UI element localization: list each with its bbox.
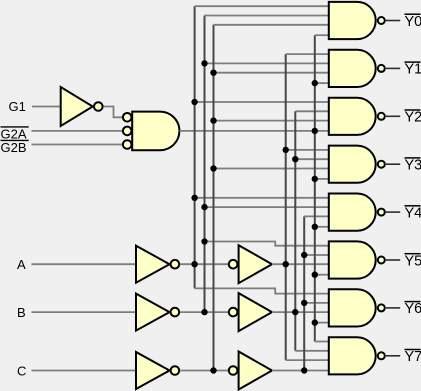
- wire Y3 output: [386, 163, 400, 165]
- wire B bus vertical: [294, 111, 296, 350]
- junction B-bar source: [201, 309, 207, 315]
- junction E/Y3: [312, 176, 318, 182]
- wire A-bar bus vertical: [194, 6, 196, 288]
- output label Y0 (active low): [405, 14, 421, 30]
- wire A bus vertical: [285, 54, 287, 360]
- NAND gate Y0: [329, 2, 385, 39]
- inverter first stage (C): [136, 352, 179, 389]
- wire C to Y5 input 2: [304, 254, 329, 256]
- wire B to Y7 input 2: [295, 350, 329, 352]
- svg-text:Y5: Y5: [405, 253, 421, 269]
- wire C-bar to Y0 input 3: [214, 24, 329, 26]
- wire E to Y6 input 4: [315, 322, 329, 324]
- enable AND gate U2 (3-input, bubbled inputs): [123, 112, 180, 151]
- wire C bus vertical: [303, 216, 305, 370]
- junction C/Y6: [301, 300, 307, 306]
- input label G2B (active low): [1, 140, 29, 155]
- NAND gate Y2: [329, 98, 385, 135]
- wire A to Y3 input 1: [286, 149, 329, 151]
- output label Y7 (active low): [405, 349, 421, 365]
- wire B-bar line: [180, 311, 229, 313]
- junction C-bar/Y3: [210, 165, 216, 171]
- wire A-bar line: [180, 263, 229, 265]
- output label Y1 (active low): [405, 62, 421, 78]
- wire A line to Y5 input 3: [272, 263, 329, 265]
- wire E to Y0 input 4: [315, 34, 329, 36]
- output label Y4 (active low): [405, 205, 421, 221]
- wire Y4 output: [386, 211, 400, 213]
- junction B-bar/Y1: [201, 60, 207, 66]
- svg-text:Y2: Y2: [405, 110, 421, 126]
- wire A-bar to Y2 input 1: [195, 101, 329, 103]
- NAND gate Y1: [329, 50, 385, 87]
- junction B-bar/Y4: [201, 204, 207, 210]
- junction E/Y5: [312, 272, 318, 278]
- wire E enable line to Y2 input 4: [179, 130, 328, 132]
- wire Y0 output: [386, 20, 400, 22]
- wire C-bar to Y1 input 3: [214, 72, 329, 74]
- wire A to Y7 input 3: [286, 359, 329, 361]
- svg-text:Y4: Y4: [405, 205, 421, 221]
- wire B to Y3 input 2: [295, 158, 329, 160]
- buffer second stage (C): [229, 352, 272, 390]
- junction E line: [312, 128, 318, 134]
- wire B to Y2 input 2: [295, 110, 329, 112]
- NAND gate Y7: [329, 337, 385, 374]
- junction A-bar/Y4: [191, 195, 197, 201]
- wire A-bar to Y6 input 1 (jog): [195, 288, 329, 293]
- svg-text:Y7: Y7: [405, 349, 421, 365]
- junction C source: [301, 367, 307, 373]
- buffer second stage (A): [229, 245, 272, 283]
- wire G2B input: [32, 144, 123, 146]
- output label Y3 (active low): [405, 158, 421, 174]
- NAND gate Y6: [329, 289, 385, 326]
- wire E to Y4 input 4: [315, 226, 329, 228]
- wire B-bar to Y1 input 2: [205, 62, 329, 64]
- svg-text:Y3: Y3: [405, 158, 421, 174]
- svg-text:G1: G1: [9, 99, 26, 114]
- wire E to Y5 input 4: [315, 274, 329, 276]
- wire E to Y7 input 1: [315, 341, 329, 343]
- wire C-bar bus vertical: [213, 25, 215, 371]
- wire C line to Y7 input 4: [272, 370, 329, 372]
- svg-text:B: B: [17, 305, 26, 320]
- junction A-bar source: [191, 261, 197, 267]
- junction C-bar source: [210, 367, 216, 373]
- wire C to Y6 input 2: [304, 302, 329, 304]
- svg-text:Y1: Y1: [405, 62, 421, 78]
- junction E/Y4: [312, 224, 318, 230]
- NAND gate Y5: [329, 241, 385, 278]
- NAND gate Y4: [329, 194, 385, 231]
- wire E to Y3 input 4: [315, 178, 329, 180]
- wire C-bar line: [180, 370, 229, 372]
- output label Y2 (active low): [405, 110, 421, 126]
- junction E/Y1: [312, 80, 318, 86]
- wire U1 output to enable AND input 1: [104, 107, 123, 118]
- wire Y1 output: [386, 67, 400, 69]
- wire A-bar to Y0 input 1: [195, 5, 329, 7]
- svg-text:Y6: Y6: [405, 301, 421, 317]
- inverter U1 (G1): [61, 87, 103, 126]
- wire A to Y1 input 1: [286, 53, 329, 55]
- junction B/Y3: [292, 156, 298, 162]
- input label G2A (active low): [1, 126, 29, 141]
- junction A/Y3: [283, 147, 289, 153]
- wire G1 input: [32, 106, 61, 108]
- wire A input: [32, 263, 137, 265]
- junction A source line: [283, 261, 289, 267]
- junction A-bar/Y2: [191, 99, 197, 105]
- junction B source line: [292, 309, 298, 315]
- svg-text:C: C: [17, 363, 26, 378]
- wire G2A input: [32, 130, 123, 132]
- wire B line to Y6 input 3: [272, 311, 329, 313]
- inverter first stage (B): [136, 294, 179, 331]
- wire B-bar to Y0 input 2: [205, 15, 329, 17]
- wire E bus vertical: [314, 35, 316, 341]
- svg-text:G2B: G2B: [1, 140, 27, 155]
- junction C-bar/Y1: [210, 70, 216, 76]
- wire Y5 output: [386, 259, 400, 261]
- wire B-bar to Y4 input 2: [205, 206, 329, 208]
- wire B-bar bus vertical: [204, 16, 206, 313]
- wire C-bar to Y2 input 3: [214, 120, 329, 122]
- junction B-bar/Y5 jog: [201, 238, 207, 244]
- buffer second stage (B): [229, 293, 272, 331]
- junction E/Y6: [312, 319, 318, 325]
- output label Y5 (active low): [405, 253, 421, 269]
- wire C-bar to Y3 input 3: [214, 168, 329, 170]
- NAND gate Y3: [329, 146, 385, 183]
- wire A-bar to Y4 input 1: [195, 197, 329, 199]
- inverter first stage (A): [136, 246, 179, 283]
- wire B-bar to Y5 input 1 (jog): [205, 242, 329, 246]
- wire Y7 output: [386, 355, 400, 357]
- wire E to Y1 input 4: [315, 82, 329, 84]
- wire C input: [32, 370, 137, 372]
- wire Y2 output: [386, 115, 400, 117]
- svg-text:A: A: [17, 257, 26, 272]
- output label Y6 (active low): [405, 301, 421, 317]
- wire Y6 output: [386, 307, 400, 309]
- svg-text:Y0: Y0: [405, 14, 421, 30]
- junction C-bar/Y2: [210, 117, 216, 123]
- wire C to Y4 input 3: [304, 215, 329, 217]
- junction C/Y5: [301, 252, 307, 258]
- wire B input: [32, 311, 137, 313]
